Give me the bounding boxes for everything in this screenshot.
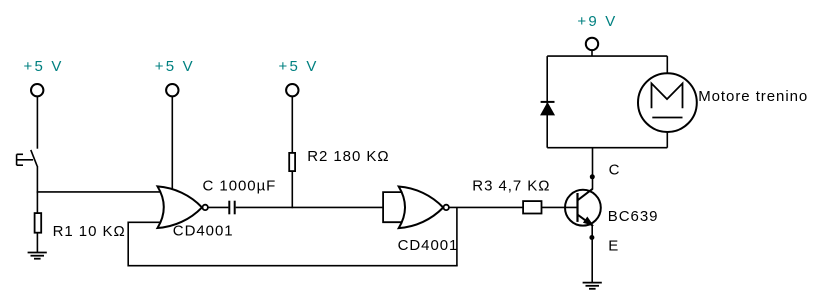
- svg-text:+9 V: +9 V: [577, 13, 617, 30]
- emitter arrow of Q1: [584, 218, 593, 225]
- power terminal +9V: [586, 38, 598, 50]
- transistor Q1 BC639: [565, 189, 601, 226]
- wire terminal to R2: [291, 96, 293, 152]
- wire motor to bottom rail: [666, 132, 668, 148]
- wire diode branch: [546, 56, 548, 148]
- svg-text:+5 V: +5 V: [24, 58, 64, 75]
- wire terminal to top rail: [591, 50, 593, 56]
- svg-text:Motore trenino: Motore trenino: [698, 88, 808, 105]
- ground (right): [583, 283, 602, 289]
- svg-text:C: C: [609, 161, 621, 178]
- resistor R1: [35, 213, 42, 233]
- resistor R2: [289, 153, 295, 171]
- svg-text:R3 4,7 KΩ: R3 4,7 KΩ: [472, 178, 550, 195]
- NOR gate U2 (CD4001) body: [399, 187, 444, 229]
- wire R1 to ground: [36, 233, 38, 253]
- output bubble U1: [203, 205, 208, 210]
- wire switch to junction: [36, 166, 38, 193]
- wire terminal to switch: [36, 96, 38, 148]
- svg-text:R1 10 KΩ: R1 10 KΩ: [53, 223, 126, 240]
- node E dot: [589, 235, 594, 240]
- wire U2 output to R3: [449, 206, 523, 208]
- wire top rail: [547, 55, 667, 57]
- svg-text:CD4001: CD4001: [173, 223, 234, 240]
- power terminal +5V (left): [31, 84, 43, 96]
- wire junction to R1: [36, 192, 38, 213]
- wire feedback vertical left: [127, 222, 129, 267]
- pushbutton S1: [17, 150, 38, 166]
- svg-text:CD4001: CD4001: [398, 237, 459, 254]
- wire motor branch: [666, 56, 668, 73]
- wire junction to gate U1 input A: [37, 191, 161, 193]
- wire terminal to gate U1 input B: [171, 96, 173, 192]
- wire feedback to gate U1 lower input: [128, 221, 160, 223]
- motor M (Motore trenino): [638, 73, 697, 132]
- node C dot: [590, 174, 595, 179]
- output bubble U2: [444, 205, 449, 210]
- wire capacitor to gate U2 input: [236, 206, 383, 208]
- resistor R3: [523, 201, 541, 213]
- capacitor C 1000µF: [229, 201, 234, 215]
- svg-text:+5 V: +5 V: [279, 58, 319, 75]
- svg-text:C 1000µF: C 1000µF: [203, 178, 277, 195]
- svg-text:BC639: BC639: [608, 208, 659, 225]
- power terminal +5V (middle): [166, 84, 178, 96]
- diode D1 cathode bar: [541, 101, 555, 103]
- motor M symbol: [652, 83, 683, 117]
- wire collector up to motor rail: [592, 148, 594, 189]
- ground (left): [28, 253, 47, 259]
- wire U1 output to capacitor: [208, 206, 229, 208]
- wire bottom rail: [547, 147, 667, 149]
- wire feedback vertical right: [456, 207, 458, 265]
- svg-text:E: E: [608, 238, 619, 255]
- power terminal +5V (right): [286, 84, 298, 96]
- wire R2 to node: [291, 171, 293, 208]
- diode D1: [541, 103, 554, 115]
- wire feedback bottom: [128, 265, 458, 267]
- svg-text:+5 V: +5 V: [155, 58, 195, 75]
- NOR gate U1 (CD4001): [158, 186, 203, 228]
- wire emitter down to ground: [591, 225, 593, 282]
- wire R3 to transistor base: [542, 206, 578, 208]
- NOR gate U2 (CD4001) input tie rectangle: [383, 192, 402, 222]
- svg-text:R2 180 KΩ: R2 180 KΩ: [307, 148, 389, 165]
